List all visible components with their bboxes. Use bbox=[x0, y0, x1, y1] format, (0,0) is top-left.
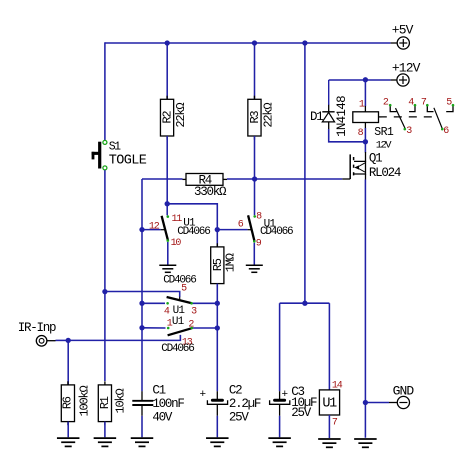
svg-text:R1: R1 bbox=[98, 396, 112, 409]
wire +12V rail bbox=[329, 79, 391, 81]
switch S1 bbox=[92, 140, 107, 170]
ic U1 power block bbox=[319, 390, 339, 415]
node junction dot R2 top bbox=[165, 40, 170, 45]
svg-text:3: 3 bbox=[406, 126, 412, 137]
wire IR pad to R6 bbox=[56, 339, 69, 341]
capacitor C3 polarized bbox=[270, 389, 290, 416]
wire supply bracket horizontal bbox=[280, 302, 330, 304]
relay contact pin 4 bbox=[409, 106, 415, 112]
resistor R5 bbox=[216, 243, 218, 247]
wire Q1 drain bbox=[364, 142, 366, 153]
ground C2 bbox=[206, 437, 229, 439]
svg-text:8: 8 bbox=[256, 212, 262, 223]
resistor R1 bbox=[104, 381, 106, 385]
transistor Q1 RL024 bbox=[350, 152, 365, 180]
svg-text:+12V: +12V bbox=[392, 60, 421, 75]
wire R2bottom to R5/ctrl6 bbox=[167, 204, 217, 230]
svg-text:R3: R3 bbox=[248, 111, 262, 124]
wire R5 bottom to C2 bbox=[216, 284, 218, 392]
svg-text:C2: C2 bbox=[229, 384, 242, 398]
svg-text:1N4148: 1N4148 bbox=[335, 96, 349, 137]
relay contact pin 7 bbox=[427, 106, 433, 112]
wire S1 top from rail bbox=[104, 42, 106, 140]
svg-text:5: 5 bbox=[446, 98, 452, 109]
ground R1 bbox=[94, 437, 117, 439]
capacitor C1 bbox=[132, 391, 153, 416]
svg-text:U1: U1 bbox=[172, 316, 185, 328]
svg-text:1: 1 bbox=[359, 99, 365, 110]
svg-text:7: 7 bbox=[421, 98, 427, 109]
node junction dot R3 top bbox=[252, 40, 257, 45]
wire S1 bottom to R1 bbox=[104, 170, 106, 381]
resistor R3 bbox=[253, 96, 255, 100]
connector pad IR-Inp bbox=[36, 336, 55, 347]
wire U1 power to ground bbox=[328, 415, 330, 438]
svg-text:10kΩ: 10kΩ bbox=[114, 389, 128, 414]
wire R4 left vertical net bbox=[141, 179, 143, 391]
svg-text:7: 7 bbox=[332, 418, 338, 429]
svg-text:330kΩ: 330kΩ bbox=[194, 185, 227, 199]
power +12V symbol bbox=[397, 74, 409, 86]
wire U1 supply drop from rail bbox=[304, 43, 306, 303]
wire +5V stub black bbox=[391, 42, 398, 44]
node junction dot relay coil feed bbox=[363, 77, 368, 82]
node junction dot R6 top bbox=[66, 338, 71, 343]
node junction dot R3-R4 bbox=[252, 176, 257, 181]
wire GND symbol bbox=[365, 402, 389, 404]
wire Q1 source to ground rail bbox=[364, 180, 366, 438]
relay contact arm 2 bbox=[434, 108, 442, 129]
svg-text:22kΩ: 22kΩ bbox=[262, 103, 276, 128]
svg-text:14: 14 bbox=[332, 380, 343, 391]
wire U1 power drop bbox=[328, 303, 330, 390]
svg-text:4: 4 bbox=[164, 307, 170, 318]
analog switch U1c pins 4-3-5 bbox=[167, 297, 192, 303]
svg-text:12: 12 bbox=[149, 221, 160, 232]
wire C3 drop bbox=[279, 303, 281, 391]
svg-text:22kΩ: 22kΩ bbox=[174, 103, 188, 128]
ground sw B bbox=[246, 264, 263, 266]
wire R2 bottom bbox=[166, 136, 168, 215]
svg-text:6: 6 bbox=[238, 219, 244, 230]
svg-text:2.2µF: 2.2µF bbox=[229, 397, 261, 411]
node junction dot U1-supply top bbox=[302, 40, 307, 45]
relay mechanical dashed link bbox=[379, 116, 434, 118]
ground U1 bbox=[318, 438, 341, 440]
svg-text:U1: U1 bbox=[322, 397, 337, 412]
resistor R6 bbox=[67, 381, 69, 385]
svg-text:3: 3 bbox=[191, 307, 197, 318]
wire sw43 output bbox=[193, 302, 218, 304]
relay contact pin 2 bbox=[390, 106, 396, 112]
wire ctrl5 from S1 net bbox=[105, 292, 180, 298]
svg-text:D1: D1 bbox=[310, 110, 323, 124]
svg-text:CD4066: CD4066 bbox=[177, 226, 210, 238]
node junction dot ctrl5 branch bbox=[102, 289, 107, 294]
node junction dot sw43 output bbox=[215, 301, 220, 306]
svg-text:S1: S1 bbox=[109, 141, 121, 154]
svg-text:6: 6 bbox=[443, 126, 449, 137]
relay contact pin 5 bbox=[446, 106, 453, 112]
analog switch U1a pins 11-10-12 bbox=[161, 216, 168, 240]
svg-text:4: 4 bbox=[408, 98, 414, 109]
wire Q1 gate stub bbox=[342, 178, 350, 180]
wire R3 bottom to switch pin8 bbox=[254, 136, 256, 215]
svg-text:R6: R6 bbox=[60, 396, 74, 409]
wire relay pin1 bbox=[364, 80, 366, 106]
svg-text:CD4066: CD4066 bbox=[260, 226, 293, 238]
wire sw pin9 to ground bbox=[253, 243, 255, 265]
node junction dot sw12 output bbox=[215, 325, 220, 330]
svg-text:R2: R2 bbox=[161, 111, 175, 124]
wire C1 bottom bbox=[141, 416, 143, 438]
node junction dot sw12 input bbox=[139, 325, 144, 330]
ground R6 bbox=[57, 437, 79, 439]
svg-text:11: 11 bbox=[172, 214, 183, 225]
analog switch U1b pins 8-9-6 bbox=[248, 215, 255, 241]
wire ctrl13 from IR net bbox=[68, 335, 180, 340]
wire R2 top bbox=[166, 43, 168, 99]
svg-text:1MΩ: 1MΩ bbox=[223, 253, 237, 272]
wire C3 bottom bbox=[279, 416, 281, 438]
resistor R4 bbox=[183, 174, 228, 186]
wire sw43 input bbox=[142, 302, 165, 304]
capacitor C2 polarized bbox=[200, 389, 228, 416]
svg-text:SR1: SR1 bbox=[374, 126, 394, 139]
svg-text:12V: 12V bbox=[376, 140, 393, 152]
wire R6 top bbox=[67, 340, 69, 385]
svg-text:TOGLE: TOGLE bbox=[109, 153, 147, 168]
wire D1 bottom to relay pin8 net bbox=[329, 129, 366, 142]
wire +5V top rail bbox=[105, 42, 391, 44]
power GND symbol bbox=[397, 396, 409, 408]
wire sw12 input bbox=[142, 327, 166, 329]
wire R5 top stub bbox=[216, 230, 218, 247]
wire relay pin8 down bbox=[364, 128, 366, 142]
ground C3 bbox=[268, 437, 291, 439]
wire R4 left horizontal bbox=[142, 178, 183, 180]
power +5V symbol bbox=[397, 37, 409, 49]
svg-text:Q1: Q1 bbox=[369, 152, 382, 166]
svg-text:2: 2 bbox=[383, 98, 389, 109]
svg-text:+: + bbox=[200, 389, 207, 401]
node junction dot R2 bottom net bbox=[165, 201, 170, 206]
wire GND stub black bbox=[389, 402, 397, 404]
diode D1 1N4148 bbox=[322, 80, 334, 130]
node junction dot ctrl12 branch bbox=[139, 227, 144, 232]
resistor R2 bbox=[166, 96, 168, 100]
relay coil SR1 bbox=[353, 106, 379, 129]
node junction dot R5 top bbox=[215, 227, 220, 232]
node junction dot drain net bbox=[363, 139, 368, 144]
svg-text:CD4066: CD4066 bbox=[161, 343, 194, 355]
svg-text:CD4066: CD4066 bbox=[163, 274, 196, 286]
wire sw pin10 to ground bbox=[167, 242, 169, 265]
wire ctrl12 bbox=[142, 229, 161, 231]
ground main bbox=[354, 438, 377, 440]
svg-text:40V: 40V bbox=[152, 411, 173, 425]
svg-text:IR-Inp: IR-Inp bbox=[18, 321, 56, 335]
wire C2 bottom bbox=[216, 416, 218, 438]
wire R4 right to Q1 gate bbox=[227, 178, 342, 180]
node junction dot supply bracket bbox=[302, 301, 307, 306]
svg-text:25V: 25V bbox=[229, 411, 250, 425]
analog switch U1d pins 1-2-13 bbox=[168, 328, 192, 338]
node junction dot sw43 input bbox=[139, 301, 144, 306]
svg-text:100kΩ: 100kΩ bbox=[77, 386, 91, 417]
svg-text:10: 10 bbox=[171, 238, 182, 249]
svg-text:9: 9 bbox=[256, 238, 262, 249]
wire R1 bottom bbox=[104, 422, 106, 438]
svg-text:RL024: RL024 bbox=[369, 166, 401, 180]
relay contact arm 1 bbox=[396, 108, 406, 129]
wire R6 bottom bbox=[67, 422, 69, 438]
wire ctrl6 bbox=[217, 229, 247, 231]
svg-text:C1: C1 bbox=[152, 384, 165, 398]
svg-text:+5V: +5V bbox=[392, 23, 414, 38]
wire R3 top bbox=[254, 43, 256, 99]
svg-text:GND: GND bbox=[393, 383, 415, 398]
svg-text:25V: 25V bbox=[291, 406, 312, 420]
svg-text:100nF: 100nF bbox=[152, 397, 184, 411]
svg-text:8: 8 bbox=[358, 128, 364, 139]
wire sw12 output bbox=[192, 327, 217, 329]
ground C1 bbox=[131, 437, 154, 439]
node junction dot GND tap bbox=[363, 400, 368, 405]
ground sw A bbox=[159, 264, 176, 266]
wire +12V stub black bbox=[391, 79, 397, 81]
